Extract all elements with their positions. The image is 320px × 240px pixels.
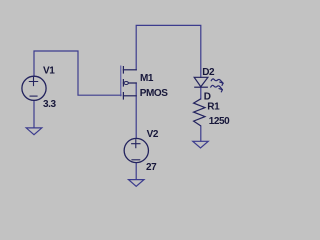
wire D2 cathode to R1 [200,87,202,99]
svg-text:M1: M1 [140,73,154,84]
wire R1 to ground [200,126,202,141]
svg-text:R1: R1 [207,102,220,113]
wire V2 minus to ground [135,163,137,180]
svg-text:V2: V2 [147,129,159,140]
svg-text:27: 27 [146,162,157,173]
svg-text:3.3: 3.3 [43,99,57,110]
svg-text:PMOS: PMOS [140,88,169,99]
LED light arrows [211,79,223,92]
voltage source V1 [22,76,46,100]
diode D2 (LED) [194,77,208,87]
wire V1 minus to ground [33,100,35,127]
wire top rail (M1 source to D2 anode) [136,25,201,77]
voltage source V2 [124,138,148,162]
ground (below R1) [193,141,208,148]
svg-text:V1: V1 [43,66,55,77]
resistor R1 [194,99,205,126]
wire M1 drain to V2 plus [135,83,137,138]
wire V1 top to M1 gate [34,51,121,95]
svg-text:D2: D2 [202,67,215,78]
svg-text:1250: 1250 [209,116,230,127]
ground (below V2) [129,180,145,187]
ground (below V1) [26,128,42,135]
transistor M1 (PMOS) [121,66,136,99]
